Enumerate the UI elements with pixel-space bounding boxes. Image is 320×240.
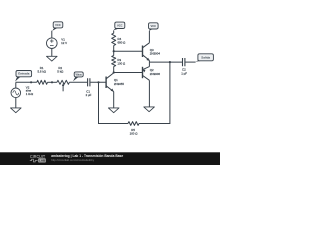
node (Entrada tap) <box>30 81 32 83</box>
svg-text:VCC: VCC <box>55 23 61 27</box>
net label Vbias <box>73 76 79 81</box>
resistor R3 100 <box>112 56 116 67</box>
wire C1 to Q1 base <box>90 81 106 83</box>
svg-text:2N3906: 2N3906 <box>150 72 161 76</box>
svg-text:Salida: Salida <box>201 55 210 59</box>
svg-text:VCC: VCC <box>150 24 156 28</box>
ground (V1) <box>47 56 58 61</box>
footer bar <box>0 152 220 165</box>
wire V1 top <box>51 31 53 38</box>
wire output to Q2 emitter <box>148 62 150 67</box>
svg-text:Entrada: Entrada <box>18 72 30 76</box>
node (feedback tap) <box>97 81 99 83</box>
svg-text:100 Ω: 100 Ω <box>130 132 139 136</box>
wire V2 bottom <box>15 98 17 108</box>
wire V2 to R1 <box>16 81 37 83</box>
transistor Q2 2N3906 <box>142 67 144 78</box>
transistor Q1 2N3055 <box>105 77 107 89</box>
svg-text:5.6 kΩ: 5.6 kΩ <box>38 70 47 74</box>
wire R4 to R3 <box>113 46 115 56</box>
wire Q1 emitter <box>113 92 115 108</box>
potentiometer R2 5k <box>57 80 70 84</box>
node A <box>113 50 115 52</box>
svg-text:LAB: LAB <box>39 159 46 163</box>
transistor Q3 2N3904 <box>142 46 144 58</box>
wire node B to Q2 base <box>114 72 143 74</box>
svg-text:1 kHz: 1 kHz <box>26 92 34 96</box>
wire R3 to node B <box>113 67 115 73</box>
voltage source V1 12V <box>47 38 58 49</box>
wire feedback down/along <box>99 82 129 123</box>
svg-text:12 V: 12 V <box>61 41 67 45</box>
node (R1-R2) <box>51 81 53 83</box>
wire V2 top <box>15 82 17 88</box>
net label Salida <box>195 60 202 62</box>
wire Q3 emitter to output <box>148 60 150 62</box>
svg-text:2N3055: 2N3055 <box>114 82 125 86</box>
wire Q1 collector <box>113 72 115 74</box>
signal source V2 sine 1kHz <box>11 88 21 98</box>
ground (Q2) <box>144 107 155 112</box>
wire VCC to Q3 collector <box>148 31 150 43</box>
svg-text:2 µF: 2 µF <box>86 93 92 97</box>
svg-text:680 Ω: 680 Ω <box>118 41 127 45</box>
wire C2 to Salida <box>185 61 195 63</box>
resistor R1 5.6k <box>37 80 48 84</box>
wire Q2 collector <box>148 80 150 107</box>
capacitor C1 2uF <box>88 78 90 86</box>
ground (Q1) <box>108 108 119 113</box>
svg-text:http://circuitlab.com/circuit/: http://circuitlab.com/circuit/a3e9rky <box>51 158 95 162</box>
svg-text:2N3904: 2N3904 <box>150 52 161 56</box>
wire R2 to C1 <box>69 81 87 83</box>
power flag VCC (V1) <box>52 27 57 31</box>
wire output node <box>149 61 182 63</box>
svg-text:Vbias: Vbias <box>76 73 83 76</box>
wire feedback to output node <box>139 62 170 123</box>
node C <box>169 61 171 63</box>
node B <box>113 71 115 73</box>
wire R1 to R2 <box>48 81 57 83</box>
ground (V2) <box>11 108 22 113</box>
svg-text:VCC: VCC <box>117 23 123 27</box>
capacitor C2 1uF <box>183 58 185 66</box>
svg-text:1 µF: 1 µF <box>181 71 187 75</box>
svg-text:100 Ω: 100 Ω <box>117 62 126 66</box>
svg-text:5 kΩ: 5 kΩ <box>57 70 64 74</box>
wire VCC to R4 <box>113 31 115 34</box>
wire node A to Q3 base <box>114 50 143 52</box>
resistor R4 680 <box>112 33 116 45</box>
power flag VCC (Q3) <box>149 28 153 31</box>
power flag VCC (bias) <box>113 28 119 31</box>
resistor R5 100 <box>128 122 139 126</box>
net label Entrada <box>15 76 20 82</box>
wire V1 bottom <box>51 49 53 57</box>
